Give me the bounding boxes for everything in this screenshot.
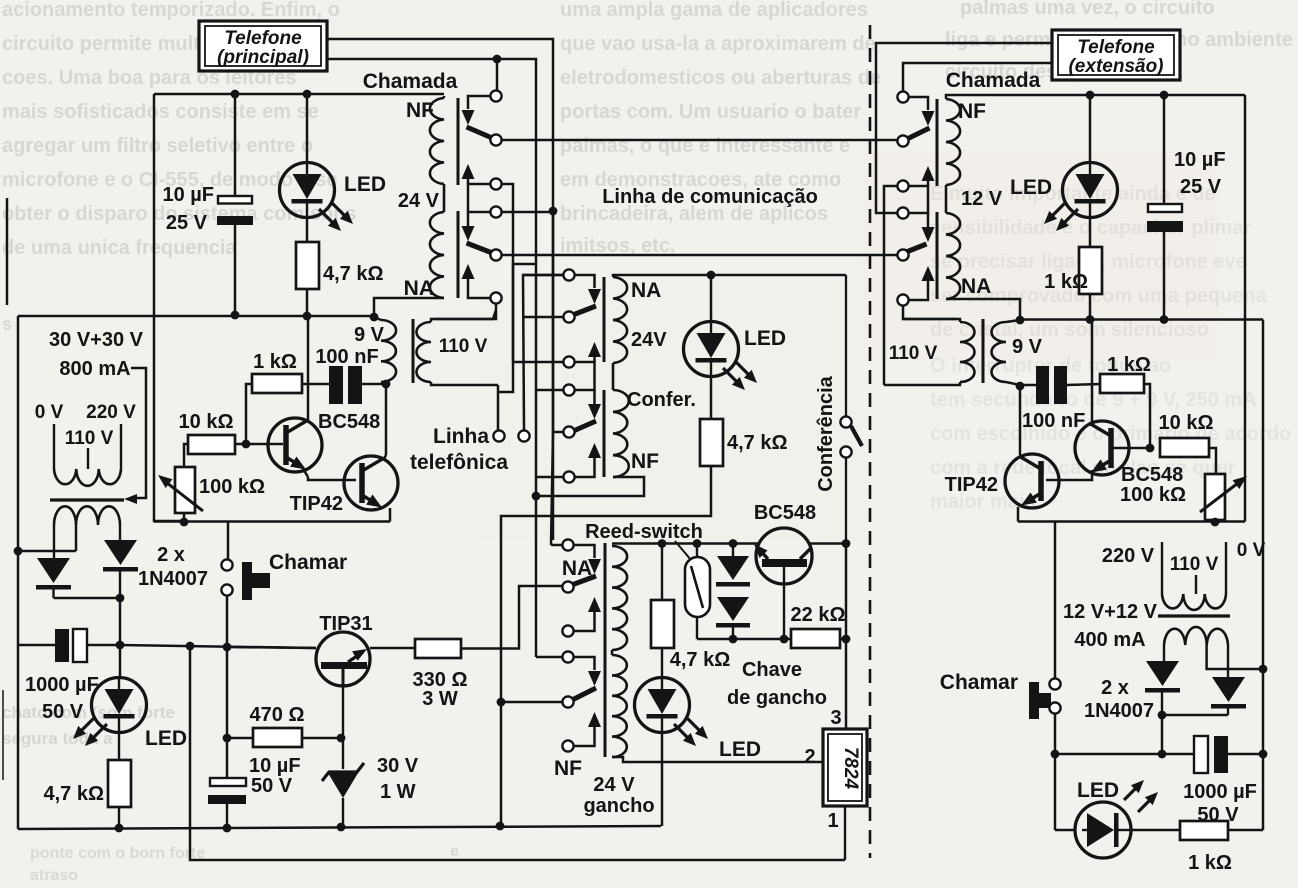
- node zener top: [337, 734, 346, 743]
- node base Q1: [242, 440, 251, 449]
- wire K2 coil bottom: [536, 477, 644, 496]
- svg-text:Chamar: Chamar: [269, 551, 347, 574]
- transistor Q2 TIP42: [290, 384, 398, 522]
- relay K2 core: [603, 277, 606, 477]
- wire x501 down: [500, 702, 503, 826]
- wire K1 coil bottom to T1: [374, 298, 444, 317]
- svg-text:NF: NF: [406, 99, 434, 122]
- svg-text:Linha de comunicação: Linha de comunicação: [602, 186, 818, 208]
- resistor R8 4,7k mid: [700, 377, 788, 467]
- svg-text:1N4007: 1N4007: [138, 568, 208, 590]
- svg-text:220 V: 220 V: [1102, 545, 1155, 567]
- svg-text:NF: NF: [958, 100, 986, 123]
- svg-text:24 V: 24 V: [593, 774, 635, 796]
- capacitor C1 10uF 25V: [162, 94, 253, 315]
- node bus315 cap: [231, 311, 240, 320]
- node bus543 r9: [658, 539, 667, 548]
- node T1 bottom: [382, 380, 391, 389]
- svg-text:imitsos, etc.: imitsos, etc.: [560, 235, 676, 257]
- svg-text:30 V: 30 V: [377, 755, 419, 777]
- svg-text:ponte com o born forte: ponte com o born forte: [30, 845, 205, 862]
- svg-text:9 V: 9 V: [1012, 336, 1043, 358]
- svg-text:25 V: 25 V: [166, 212, 208, 234]
- IC 7824: [804, 707, 867, 860]
- svg-text:NA: NA: [404, 277, 434, 300]
- node c4 gnd: [223, 824, 232, 833]
- contact K2 c2: [523, 311, 575, 322]
- rail 0V left: [17, 316, 20, 829]
- switch S2 Conferencia: [840, 275, 862, 543]
- wire x190 to bottom: [190, 646, 845, 860]
- node box1 lower branch: [493, 55, 502, 91]
- svg-text:atraso: atraso: [30, 867, 78, 884]
- box Telefone (principal): [199, 21, 327, 71]
- relay K4 core: [936, 99, 939, 299]
- svg-text:Telefone: Telefone: [1077, 37, 1155, 58]
- wire box1 lower to contacts: [327, 59, 536, 492]
- capacitor C2 100nF: [302, 346, 386, 404]
- resistor R2 4,7k: [296, 218, 384, 316]
- svg-text:110 V: 110 V: [889, 343, 938, 364]
- wire K1 c4 to node: [502, 211, 549, 214]
- node q4 base: [780, 635, 789, 644]
- potentiometer P1 100k: [158, 467, 265, 513]
- svg-text:de gancho: de gancho: [727, 687, 827, 709]
- wire K4 coil bottom: [946, 299, 1020, 320]
- node d8 bottom: [729, 635, 738, 644]
- svg-text:1000 µF: 1000 µF: [1183, 781, 1257, 803]
- svg-text:LED: LED: [1010, 176, 1052, 199]
- box Telefone (extensao): [1052, 30, 1180, 80]
- svg-text:800 mA: 800 mA: [59, 358, 130, 380]
- wire K3 coil bottom to 7824 pin2: [612, 757, 824, 762]
- svg-text:4,7 kΩ: 4,7 kΩ: [727, 432, 788, 454]
- svg-text:1N4007: 1N4007: [1084, 700, 1154, 722]
- TR1 secondary: [54, 506, 120, 558]
- transformer T2 core: [982, 319, 985, 383]
- node bus645 x227: [223, 643, 232, 652]
- node pot2 bottom: [1211, 518, 1220, 527]
- node bus95 cap: [1160, 91, 1169, 100]
- contact K3 c3: [562, 625, 573, 636]
- contact K1 c2: [490, 134, 501, 145]
- svg-text:que vao usa-la a aproximarem d: que vao usa-la a aproximarem de: [560, 33, 876, 55]
- wire bus 94: [154, 93, 444, 96]
- svg-text:s: s: [2, 314, 12, 334]
- svg-text:470 Ω: 470 Ω: [250, 704, 305, 726]
- capacitor C5 10uF ext: [1147, 95, 1226, 319]
- svg-text:chato com (som forte: chato com (som forte: [2, 703, 175, 722]
- contact K1 c6: [490, 292, 501, 303]
- svg-text:BC548: BC548: [1121, 464, 1183, 486]
- contact K4 c2: [897, 135, 908, 146]
- contact K1 c5: [490, 249, 501, 260]
- svg-text:100 kΩ: 100 kΩ: [1120, 484, 1186, 506]
- capacitor C6 100nF ext: [1020, 366, 1100, 432]
- svg-text:12 V+12 V: 12 V+12 V: [1063, 601, 1158, 623]
- node rect out: [116, 594, 125, 677]
- svg-text:LED: LED: [719, 738, 761, 761]
- transformer T1 9V coil: [354, 317, 396, 384]
- wire 1k left down: [246, 384, 252, 443]
- resistor R7 470R: [227, 704, 340, 747]
- resistor R5 4,7k: [43, 733, 131, 828]
- svg-text:mais sofisticados consiste em: mais sofisticados consiste em se: [2, 101, 319, 123]
- svg-text:10 µF: 10 µF: [1174, 149, 1226, 171]
- label Chamada: [363, 70, 458, 93]
- svg-text:LED: LED: [145, 727, 187, 750]
- svg-text:4,7 kΩ: 4,7 kΩ: [670, 649, 731, 671]
- wire K4 coil top to bus95: [946, 95, 1245, 99]
- contact K2 c1: [523, 269, 575, 280]
- svg-text:LED: LED: [1077, 779, 1119, 802]
- wire bus648: [227, 647, 316, 648]
- svg-text:2: 2: [804, 746, 815, 768]
- svg-text:palmas, o que e interessante e: palmas, o que e interessante e: [560, 135, 850, 157]
- contact K3 c2: [562, 581, 573, 592]
- node bus94 led: [303, 90, 312, 99]
- contact K2 c6: [536, 471, 575, 482]
- svg-text:1 kΩ: 1 kΩ: [1044, 271, 1088, 293]
- diodes D7 D8: [716, 539, 750, 639]
- svg-text:110 V: 110 V: [65, 428, 114, 449]
- svg-text:NA: NA: [631, 279, 661, 302]
- node chamar2 bus: [1051, 750, 1060, 759]
- svg-text:1: 1: [827, 810, 838, 832]
- wire x551: [551, 211, 553, 545]
- wire led12: [1055, 829, 1180, 832]
- svg-text:4,7 kΩ: 4,7 kΩ: [43, 783, 104, 805]
- transistor Q3 TIP31: [316, 613, 373, 738]
- svg-text:1 kΩ: 1 kΩ: [253, 351, 297, 373]
- node x227 470: [223, 734, 232, 743]
- relay K3 coil: [612, 546, 627, 757]
- wire box2 top: [876, 43, 1052, 213]
- wire K3 coil top bus543: [612, 542, 846, 545]
- node gancho c5: [497, 698, 506, 707]
- node T2 bottom: [1016, 382, 1025, 391]
- svg-text:portas com. Um usuario o bater: portas com. Um usuario o bater: [560, 101, 861, 123]
- transistor Q4 BC548 gancho: [754, 502, 816, 639]
- arrow K4 na2: [909, 266, 935, 300]
- diode D2 1N4007: [103, 540, 138, 598]
- contact K3 c1: [551, 539, 574, 550]
- arrow K3 na2: [574, 712, 601, 746]
- wire line A (c2 to ext): [502, 139, 897, 142]
- node bus645 x190: [186, 642, 195, 651]
- contact K2 c3: [513, 356, 595, 390]
- transformer T2 110V coil: [884, 319, 974, 385]
- contact K4 c6: [897, 294, 908, 305]
- contact K3 c6: [562, 740, 573, 751]
- node bus315 led: [303, 312, 312, 321]
- node bus319 cap: [1160, 315, 1169, 324]
- label TR2 specs: [1063, 540, 1266, 651]
- svg-text:10 kΩ: 10 kΩ: [179, 411, 234, 433]
- label 2x 1N4007: [138, 544, 208, 590]
- svg-text:25 V: 25 V: [1180, 176, 1222, 198]
- svg-text:100 kΩ: 100 kΩ: [199, 476, 265, 498]
- wire K2 coil top: [613, 275, 846, 277]
- label K3 NF: [554, 757, 582, 780]
- svg-text:TIP42: TIP42: [290, 493, 343, 515]
- svg-text:palmas uma vez, o circuito: palmas uma vez, o circuito: [960, 0, 1215, 19]
- svg-text:telefônica: telefônica: [410, 451, 508, 474]
- wire bus639: [697, 638, 791, 641]
- capacitor C7 1000uF ext: [1183, 736, 1263, 826]
- node center tap rail: [14, 547, 23, 556]
- node bus94 cap: [231, 90, 240, 99]
- resistor R14 1k ext2: [1180, 821, 1263, 874]
- node bus543 right: [842, 539, 851, 548]
- switch S1 Chamar: [221, 551, 347, 600]
- svg-text:(principal): (principal): [217, 47, 309, 68]
- wire ext bus754: [1055, 753, 1194, 756]
- arrow K1 na1: [462, 164, 475, 184]
- svg-text:Chamada: Chamada: [946, 69, 1041, 92]
- svg-text:3 W: 3 W: [422, 688, 458, 710]
- arrow K2 na1: [588, 342, 601, 362]
- transistor Q6 BC548 ext: [1046, 320, 1186, 507]
- svg-text:eletrodomesticos ou aberturas: eletrodomesticos ou aberturas de: [560, 67, 881, 89]
- zener DZ1 30V 1W: [322, 738, 419, 828]
- label 2x 1N4007 ext: [1084, 677, 1154, 722]
- svg-text:Telefone: Telefone: [224, 28, 302, 49]
- contact K3 arm1: [573, 545, 601, 585]
- svg-text:BC548: BC548: [754, 502, 816, 524]
- node x501 gnd: [496, 822, 505, 831]
- label linha telefonica: [410, 425, 508, 474]
- contact K4 c5: [897, 249, 908, 260]
- transistor Q5 TIP42 ext: [945, 454, 1059, 522]
- wire K4 c6 to T2: [903, 306, 957, 319]
- contact K4 c4: [897, 207, 908, 218]
- contact K1 c1: [490, 90, 501, 101]
- svg-text:110 V: 110 V: [439, 336, 488, 357]
- LED D4 power: [73, 678, 187, 751]
- svg-text:Chamar: Chamar: [940, 671, 1018, 694]
- contact K3 c4: [536, 651, 574, 662]
- contact K2 arm1: [574, 275, 601, 315]
- wire ext y522: [1018, 95, 1245, 678]
- page edge mark: [3, 198, 7, 780]
- wire 10k left to pot: [184, 444, 188, 467]
- svg-text:220 V: 220 V: [86, 402, 136, 423]
- svg-text:Chave: Chave: [742, 659, 802, 681]
- wire K1 c6 to T1: [434, 304, 496, 319]
- LED D9 ext: [1010, 95, 1118, 231]
- svg-text:Linha: Linha: [433, 425, 489, 448]
- node TR2 tap: [1259, 665, 1268, 674]
- transformer T2 9V coil: [992, 320, 1043, 385]
- divider dashed line: [869, 25, 872, 858]
- svg-text:0 V: 0 V: [1237, 540, 1266, 561]
- svg-text:2 x: 2 x: [157, 544, 185, 566]
- svg-text:110 V: 110 V: [1170, 554, 1219, 575]
- svg-text:acionamento temporizado. Enfim: acionamento temporizado. Enfim, o: [2, 0, 340, 21]
- node led bottom: [115, 824, 124, 833]
- diode D11 1N4007: [1211, 677, 1246, 715]
- capacitor C3 1000uF 50V: [18, 629, 120, 723]
- svg-text:gancho: gancho: [583, 795, 654, 817]
- svg-text:NA: NA: [562, 557, 592, 580]
- node rect2 bus: [1158, 750, 1167, 759]
- switch S3 Chamar ext: [940, 671, 1061, 719]
- potentiometer P2 100k ext: [1200, 474, 1247, 522]
- svg-text:(extensão): (extensão): [1068, 56, 1163, 77]
- diode D10 1N4007: [1145, 661, 1180, 715]
- contact K4 c3: [897, 180, 928, 213]
- label Linha de comunicacao: [602, 186, 818, 208]
- wire left riser x154: [154, 94, 184, 521]
- node T2 top: [1016, 316, 1025, 325]
- TR1 pointer bracket: [124, 368, 146, 504]
- wire center tap: [19, 550, 76, 553]
- resistor R10 22k: [791, 604, 846, 648]
- capacitor C4 10uF 50V: [208, 755, 301, 828]
- wire x227 mid: [226, 647, 229, 778]
- svg-text:Conferência: Conferência: [815, 375, 837, 491]
- node cap pos: [116, 641, 125, 650]
- contact K4 arm2: [905, 213, 935, 253]
- svg-text:9 V: 9 V: [354, 324, 385, 346]
- svg-text:1 kΩ: 1 kΩ: [1107, 354, 1151, 376]
- TR2 secondary: [1164, 627, 1263, 677]
- LED D5 confer: [684, 275, 787, 390]
- LED D12 ext: [1075, 779, 1158, 858]
- svg-text:7824: 7824: [840, 747, 861, 790]
- label Reed-switch: [585, 521, 703, 560]
- TR1 primary: [54, 424, 121, 486]
- node zener gnd: [337, 823, 346, 832]
- relay K4 coil: [946, 99, 1003, 299]
- rail 0V right: [1262, 320, 1265, 831]
- svg-text:1 W: 1 W: [380, 781, 416, 803]
- node bus95 led: [1086, 91, 1095, 100]
- svg-text:400 mA: 400 mA: [1074, 629, 1145, 651]
- svg-text:30 V+30 V: 30 V+30 V: [49, 329, 144, 351]
- contact K1 arm2 NA: [462, 212, 492, 253]
- resistor R6 330R 3W: [370, 639, 467, 710]
- label TR1 specs: [35, 329, 144, 449]
- node rect2 out: [1158, 711, 1228, 754]
- wire T2bot down: [1019, 386, 1022, 455]
- LED D3: [280, 94, 387, 231]
- wire bus316: [18, 315, 374, 318]
- svg-text:22 kΩ: 22 kΩ: [791, 604, 846, 626]
- svg-text:100 nF: 100 nF: [315, 346, 378, 368]
- label Conferencia: [815, 375, 837, 491]
- svg-text:1000 µF: 1000 µF: [25, 674, 99, 696]
- svg-text:1 kΩ: 1 kΩ: [1188, 852, 1232, 874]
- arrow K3 na1: [574, 597, 601, 631]
- svg-text:2 x: 2 x: [1101, 677, 1129, 699]
- resistor R13 10k ext: [1159, 412, 1216, 474]
- wire K2 left links: [513, 264, 536, 362]
- LED D6 gancho: [635, 648, 762, 761]
- svg-text:NA: NA: [961, 275, 991, 298]
- wire y522: [154, 513, 390, 559]
- contact K2 c4: [536, 384, 575, 395]
- TR1 core: [50, 498, 124, 501]
- node k2 nf: [532, 492, 541, 501]
- TR2 core: [1158, 614, 1230, 617]
- contact K3 c5: [501, 696, 574, 707]
- contact K4 c1: [897, 91, 908, 102]
- transistor Q1 BC548: [268, 316, 380, 480]
- node bus754 rail: [1259, 750, 1268, 759]
- svg-text:100 nF: 100 nF: [1022, 410, 1085, 432]
- svg-text:NF: NF: [631, 450, 659, 473]
- terminal linha 1: [493, 385, 504, 442]
- svg-text:10 kΩ: 10 kΩ: [1159, 412, 1214, 434]
- transformer T1 110V coil: [417, 319, 499, 385]
- relay K1 core: [457, 98, 460, 298]
- contact K1 arm1 NF: [462, 96, 492, 138]
- svg-text:50 V: 50 V: [251, 775, 293, 797]
- wire box1 top to node x553: [327, 39, 553, 540]
- wire chamar2 down: [1054, 714, 1057, 830]
- svg-text:24 V: 24 V: [398, 190, 440, 212]
- diode D1 1N4007: [36, 558, 120, 598]
- svg-text:agregar um filtro seletivo ent: agregar um filtro seletivo entre o: [2, 135, 313, 157]
- arrow K1 na2: [462, 264, 491, 298]
- label chave de gancho: [727, 659, 827, 709]
- svg-text:tem secundario de 9 + 9 V, 250: tem secundario de 9 + 9 V, 250 mA: [930, 389, 1257, 411]
- svg-text:12 V: 12 V: [961, 188, 1003, 210]
- svg-text:0 V: 0 V: [35, 402, 64, 423]
- svg-text:TIP42: TIP42: [945, 474, 998, 496]
- contact K4 arm1: [908, 97, 935, 139]
- resistor R3 1k: [252, 351, 302, 393]
- wire bus645: [120, 645, 316, 648]
- wire x537 gancho: [535, 492, 538, 657]
- svg-text:NF: NF: [554, 757, 582, 780]
- svg-text:10 µF: 10 µF: [249, 755, 301, 777]
- TR2 primary: [1162, 542, 1226, 610]
- reed switch RS1: [685, 539, 710, 639]
- svg-text:50 V: 50 V: [42, 701, 84, 723]
- transformer T1 core: [412, 319, 415, 383]
- label Chamada ext: [946, 69, 1041, 92]
- svg-text:BC548: BC548: [318, 411, 380, 433]
- wire 330 to gancho c2: [461, 586, 562, 649]
- wire led6 bottom: [661, 733, 664, 827]
- wire 110V top to c6: [493, 310, 496, 319]
- svg-text:LED: LED: [744, 327, 786, 350]
- node c4 junction: [549, 207, 558, 216]
- wire bus828 ground: [18, 826, 661, 829]
- svg-text:de uma unica frequencia: de uma unica frequencia: [2, 237, 237, 259]
- label 24V gancho: [583, 774, 654, 817]
- resistor R12 1k ext h: [1100, 354, 1151, 444]
- wire chamar down: [226, 596, 229, 647]
- node 22k right: [842, 635, 851, 644]
- wire box2 lower: [903, 63, 1052, 91]
- wire R8 to ground bus: [501, 466, 711, 700]
- wire K1 c3 to line1: [498, 184, 513, 392]
- svg-text:4,7 kΩ: 4,7 kΩ: [323, 263, 384, 285]
- svg-text:uma ampla gama de aplicadores: uma ampla gama de aplicadores: [560, 0, 868, 21]
- svg-text:10 µF: 10 µF: [162, 184, 214, 206]
- contact K2 c5: [553, 426, 575, 437]
- contact K1 c4: [490, 206, 501, 217]
- svg-text:Confer.: Confer.: [627, 389, 696, 411]
- terminal linha 2: [518, 275, 563, 442]
- arrow K2 na2: [575, 443, 601, 477]
- resistor R4 10k: [179, 411, 283, 454]
- relay K3 core: [604, 543, 607, 757]
